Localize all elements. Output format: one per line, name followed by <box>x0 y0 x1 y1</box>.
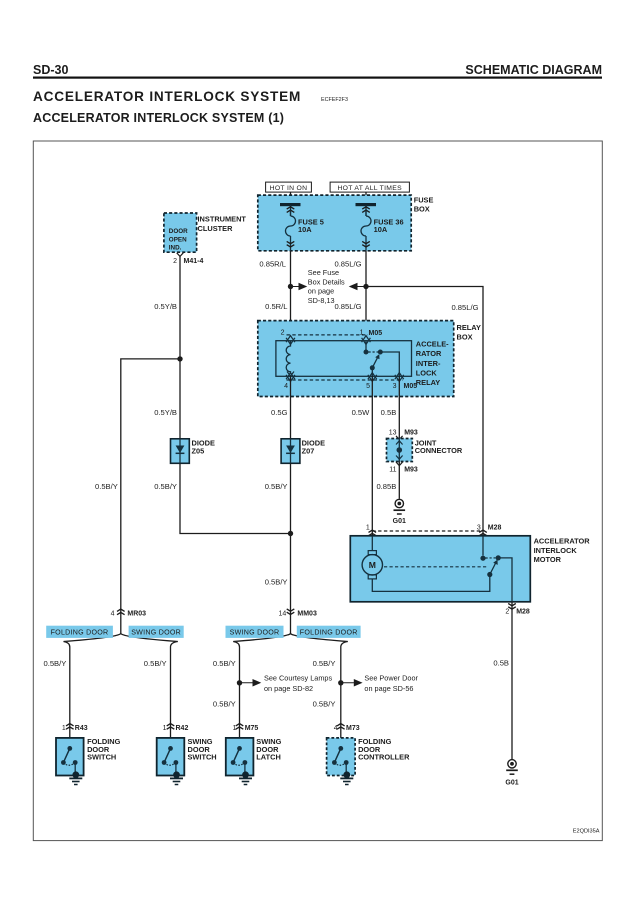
svg-text:DOOR: DOOR <box>169 228 188 235</box>
svg-text:ACCELERATOR: ACCELERATOR <box>534 537 591 546</box>
wire branch MM03 to M73 <box>291 634 348 683</box>
folding door controller internals <box>332 746 349 774</box>
relay pin4 mating connector <box>286 373 295 382</box>
note text See Courtesy Lamps <box>264 673 332 693</box>
wire branch MR03 to R42 <box>121 634 178 749</box>
folding door switch ground <box>69 771 82 784</box>
fuse box label <box>414 195 434 213</box>
node B junction dot <box>363 284 368 289</box>
svg-text:0.5B/Y: 0.5B/Y <box>265 577 288 586</box>
svg-text:0.5B/Y: 0.5B/Y <box>95 482 118 491</box>
wire relay pin4 to diode Z07 (0.5G) <box>290 376 292 439</box>
wire relay pin5 to M28 pin1 (0.5W) <box>371 376 373 536</box>
folding door switch internals <box>61 746 78 774</box>
svg-text:0.85B: 0.85B <box>376 482 396 491</box>
motor pin3 mating connector <box>479 530 487 536</box>
svg-text:M75: M75 <box>245 725 259 732</box>
relay name label <box>416 340 449 387</box>
folding door controller box (dashed) <box>327 738 356 776</box>
courtesy lamps pointer arrow <box>240 680 261 686</box>
svg-text:RATOR: RATOR <box>416 349 442 358</box>
connector MR03 chevrons <box>117 609 125 615</box>
power door pointer arrow <box>341 680 362 686</box>
svg-text:0.5R/L: 0.5R/L <box>265 302 287 311</box>
relay pin1 internal wire to contact node <box>365 341 367 352</box>
wire node E to M75 <box>239 683 241 749</box>
folding door controller ground <box>340 771 353 784</box>
swing door latch internals <box>231 746 248 774</box>
svg-text:1: 1 <box>163 725 167 732</box>
node E junction dot (courtesy lamps) <box>237 680 242 685</box>
motor mechanical dashed link <box>384 566 488 568</box>
svg-text:on page SD-82: on page SD-82 <box>264 684 313 693</box>
svg-text:0.5W: 0.5W <box>352 408 371 417</box>
svg-text:M05: M05 <box>369 330 383 337</box>
motor name label <box>534 537 591 564</box>
svg-text:M28: M28 <box>488 524 502 531</box>
svg-text:See Courtesy Lamps: See Courtesy Lamps <box>264 673 332 682</box>
relay coil (pin2 to pin4) <box>286 341 290 372</box>
svg-text:ACCELERATOR INTERLOCK SYSTEM: ACCELERATOR INTERLOCK SYSTEM <box>33 89 301 104</box>
door open indicator label <box>169 228 188 252</box>
motor pin1 mating connector <box>369 530 377 536</box>
svg-text:HOT IN ON: HOT IN ON <box>270 185 308 192</box>
svg-text:Z05: Z05 <box>192 447 205 456</box>
svg-text:ECFEF2F3: ECFEF2F3 <box>321 97 348 103</box>
wire node C to left rail <box>121 359 180 634</box>
svg-text:0.5G: 0.5G <box>271 408 288 417</box>
svg-text:2: 2 <box>173 258 177 265</box>
wire relay pin3 to joint connector (0.5B) <box>398 376 400 440</box>
connector R43 chevrons <box>66 724 74 730</box>
svg-text:SD-30: SD-30 <box>33 63 68 77</box>
instrument cluster label <box>198 215 247 233</box>
svg-text:LOCK: LOCK <box>416 368 438 377</box>
svg-text:M: M <box>369 560 376 570</box>
svg-text:MM03: MM03 <box>297 610 317 617</box>
motor internal wire to switch pivot <box>372 577 490 591</box>
diode Z07 <box>281 439 300 464</box>
ground G01 (motor branch) <box>506 760 518 775</box>
wire node B to relay pin 1 (0.85L/G) <box>365 287 367 342</box>
see-fuse pointer arrow from node B <box>350 284 366 290</box>
swing door switch ground <box>170 771 183 784</box>
connector M73 chevrons <box>337 724 345 730</box>
joint connector internal wire with node <box>396 439 403 462</box>
svg-text:IND.: IND. <box>169 245 182 252</box>
relay switch lever with arrow <box>372 354 379 368</box>
see-fuse pointer arrow from node A <box>291 284 307 290</box>
harness tag FOLDING DOOR <box>46 626 113 638</box>
connector chevron M93 bottom <box>396 462 403 466</box>
svg-text:1: 1 <box>360 330 364 337</box>
header rule <box>33 77 602 79</box>
fuse F36 value label <box>374 217 404 233</box>
connector M28 top row (dashed) <box>372 530 483 532</box>
node D junction dot <box>288 531 293 536</box>
relay pin2 mating connector <box>286 336 295 345</box>
wire node C to diode Z05 (0.5Y/B) <box>179 359 181 439</box>
svg-text:4: 4 <box>284 383 288 390</box>
power tag HOT IN ON <box>266 182 312 192</box>
wire diode Z07 to MM03 (0.5B/Y) <box>290 463 292 633</box>
svg-text:0.85R/L: 0.85R/L <box>259 260 286 269</box>
wire cluster to node C (0.5Y/B) <box>179 256 181 359</box>
svg-text:0.85L/G: 0.85L/G <box>334 302 361 311</box>
motor switch pivot dot <box>487 572 492 577</box>
note text See Power Door <box>364 673 418 693</box>
svg-text:R42: R42 <box>176 725 189 732</box>
diagram border frame <box>33 141 602 841</box>
swing door switch box <box>157 738 185 776</box>
motor M symbol <box>362 536 382 579</box>
svg-text:on page SD-56: on page SD-56 <box>364 684 413 693</box>
svg-text:CLUSTER: CLUSTER <box>198 224 234 233</box>
power tag HOT AT ALL TIMES <box>330 182 409 192</box>
connector M75 chevrons <box>236 724 244 730</box>
svg-text:SWING DOOR: SWING DOOR <box>131 629 181 637</box>
svg-text:3: 3 <box>477 524 481 531</box>
svg-text:CONNECTOR: CONNECTOR <box>415 446 463 455</box>
svg-text:13: 13 <box>389 429 397 436</box>
connector M05 top row (dashed) <box>287 334 369 336</box>
svg-text:SWITCH: SWITCH <box>87 753 116 762</box>
connector MM03 chevrons <box>287 609 295 615</box>
joint connector M93 box (dashed) <box>387 439 413 462</box>
svg-text:Z07: Z07 <box>302 447 315 456</box>
wire diode Z05 to node D (0.5B/Y) <box>180 463 291 533</box>
diode Z07 label <box>302 438 325 455</box>
svg-text:0.5Y/B: 0.5Y/B <box>154 408 177 417</box>
motor contact dot common <box>496 555 501 560</box>
diode Z05 <box>171 439 190 464</box>
svg-text:RELAY: RELAY <box>416 378 440 387</box>
folding door controller label <box>358 737 410 761</box>
connector chevron M93 top <box>396 436 403 440</box>
svg-text:M93: M93 <box>404 429 418 436</box>
fuse F5 value label <box>298 217 324 233</box>
accelerator interlock relay internal box U1 <box>276 341 412 377</box>
svg-text:10A: 10A <box>374 225 388 234</box>
harness tag FOLDING DOOR right <box>297 626 361 638</box>
svg-text:M41-4: M41-4 <box>184 258 204 265</box>
svg-text:1: 1 <box>62 725 66 732</box>
motor wire common to pin 2 <box>498 558 512 602</box>
svg-text:11: 11 <box>389 466 396 473</box>
wire HOT AT ALL TIMES tag to fuse bus <box>365 192 367 203</box>
svg-text:0.5Y/B: 0.5Y/B <box>154 302 177 311</box>
motor pin2 mating connector <box>508 604 516 610</box>
svg-text:FOLDING DOOR: FOLDING DOOR <box>51 629 109 637</box>
relay coil arrow to pin 4 <box>287 372 294 377</box>
svg-text:ACCELERATOR INTERLOCK SYSTEM (: ACCELERATOR INTERLOCK SYSTEM (1) <box>33 111 284 125</box>
relay box label <box>457 323 481 341</box>
node F junction dot (power door) <box>338 680 343 685</box>
joint connector label <box>415 439 463 455</box>
relay box (dashed) <box>258 321 454 397</box>
motor contact dot pin3 <box>480 556 485 561</box>
motor switch lever with arrow <box>490 560 498 575</box>
svg-text:0.5B/Y: 0.5B/Y <box>313 659 336 668</box>
svg-text:ACCELE-: ACCELE- <box>416 340 449 349</box>
wire node B to right rail (horizontal) <box>366 287 483 537</box>
motor pin3 internal wire <box>482 536 484 556</box>
svg-text:0.5B/Y: 0.5B/Y <box>313 700 336 709</box>
harness tag SWING DOOR right <box>226 626 284 638</box>
fuse box (dashed) <box>258 195 411 251</box>
svg-text:E2QDI35A: E2QDI35A <box>573 829 600 835</box>
harness tag SWING DOOR <box>129 626 184 638</box>
svg-text:SD-8,13: SD-8,13 <box>308 296 335 305</box>
relay wire common to pin 3 <box>380 352 399 376</box>
fuse F36 10A <box>356 203 377 251</box>
svg-text:CONTROLLER: CONTROLLER <box>358 753 410 762</box>
swing door latch box <box>226 738 254 776</box>
relay pin5 mating connector <box>368 373 377 382</box>
swing door switch internals <box>162 746 179 774</box>
svg-text:0.5B/Y: 0.5B/Y <box>213 659 236 668</box>
diode Z05 label <box>192 438 215 455</box>
svg-text:HOT AT ALL TIMES: HOT AT ALL TIMES <box>337 185 402 192</box>
svg-text:0.5B: 0.5B <box>381 408 397 417</box>
svg-text:0.5B/Y: 0.5B/Y <box>265 482 288 491</box>
wire branch MM03 to M75 <box>233 634 290 683</box>
node C junction dot <box>177 356 182 361</box>
svg-text:0.5B/Y: 0.5B/Y <box>213 700 236 709</box>
connector R42 chevrons <box>167 724 175 730</box>
wire fuse5 to node A (0.85R/L) <box>290 251 292 287</box>
svg-text:1: 1 <box>232 725 236 732</box>
svg-text:LATCH: LATCH <box>256 753 281 762</box>
svg-text:SWITCH: SWITCH <box>188 753 217 762</box>
svg-text:BOX: BOX <box>457 332 473 341</box>
svg-text:4: 4 <box>111 610 115 617</box>
connector M05 bottom row (dashed) <box>287 379 404 381</box>
svg-text:G01: G01 <box>505 779 518 786</box>
svg-text:SWING DOOR: SWING DOOR <box>230 629 280 637</box>
relay pin1 mating connector <box>362 336 371 345</box>
svg-text:SCHEMATIC DIAGRAM: SCHEMATIC DIAGRAM <box>465 63 602 77</box>
relay contact node dot (pin1) <box>364 350 369 355</box>
svg-text:0.5B/Y: 0.5B/Y <box>154 482 177 491</box>
svg-text:4: 4 <box>334 725 338 732</box>
svg-text:R43: R43 <box>75 725 88 732</box>
svg-text:RELAY: RELAY <box>457 323 481 332</box>
wire branch MR03 to R43 <box>64 634 121 749</box>
svg-text:1: 1 <box>366 524 370 531</box>
svg-text:M73: M73 <box>346 725 360 732</box>
svg-text:0.85L/G: 0.85L/G <box>451 303 478 312</box>
svg-text:FUSE: FUSE <box>414 195 434 204</box>
svg-text:0.5B/Y: 0.5B/Y <box>144 659 167 668</box>
svg-text:BOX: BOX <box>414 204 430 213</box>
svg-text:G01: G01 <box>393 518 406 525</box>
svg-text:MOTOR: MOTOR <box>534 555 562 564</box>
swing door latch label <box>256 737 281 761</box>
instrument cluster box (dashed) <box>164 213 197 252</box>
relay contact node dot (common) <box>378 350 383 355</box>
svg-text:on page: on page <box>308 287 334 296</box>
svg-text:2: 2 <box>505 609 509 616</box>
swing door latch ground <box>239 771 252 784</box>
relay wire lever to pin 5 <box>371 368 373 377</box>
svg-text:0.5B: 0.5B <box>493 659 509 668</box>
svg-text:INSTRUMENT: INSTRUMENT <box>198 215 247 224</box>
svg-text:5: 5 <box>366 383 370 390</box>
svg-text:See Power Door: See Power Door <box>364 673 418 682</box>
folding door switch box <box>56 738 84 776</box>
relay mechanical dashed link <box>369 351 379 353</box>
svg-text:14: 14 <box>279 610 287 617</box>
wire node A to relay pin 2 (0.5R/L) <box>290 287 292 342</box>
svg-text:10A: 10A <box>298 225 312 234</box>
relay lever pivot dot <box>370 365 375 370</box>
svg-text:See Fuse: See Fuse <box>308 268 339 277</box>
wire M28 pin2 to ground G01 (0.5B) <box>511 602 513 759</box>
svg-text:MR03: MR03 <box>127 610 146 617</box>
swing door switch label <box>188 737 217 761</box>
wire fuse36 to node B (0.85L/G) <box>365 251 367 287</box>
svg-text:INTER-: INTER- <box>416 359 441 368</box>
svg-text:OPEN: OPEN <box>169 236 187 243</box>
connector M41-4 chevron <box>177 253 184 257</box>
motor contact dashed link <box>486 557 496 559</box>
relay pin3 mating connector <box>395 373 404 382</box>
wire node F to M73 <box>340 683 342 749</box>
wire M93 to ground G01 (0.85B) <box>398 462 400 499</box>
svg-text:Box Details: Box Details <box>308 277 345 286</box>
svg-text:INTERLOCK: INTERLOCK <box>534 546 578 555</box>
svg-text:M93: M93 <box>404 466 418 473</box>
fuse F5 10A <box>280 203 301 251</box>
svg-text:FOLDING DOOR: FOLDING DOOR <box>300 629 358 637</box>
svg-text:3: 3 <box>393 383 397 390</box>
accelerator interlock motor box <box>350 536 530 602</box>
note text See Fuse Box Details <box>308 268 345 305</box>
svg-text:0.5B/Y: 0.5B/Y <box>44 659 67 668</box>
folding door switch label <box>87 737 121 761</box>
wire HOT IN ON tag to fuse bus <box>290 192 292 203</box>
ground G01 (relay branch) <box>394 499 406 514</box>
svg-text:2: 2 <box>281 330 285 337</box>
svg-text:M28: M28 <box>516 609 530 616</box>
node A junction dot <box>288 284 293 289</box>
